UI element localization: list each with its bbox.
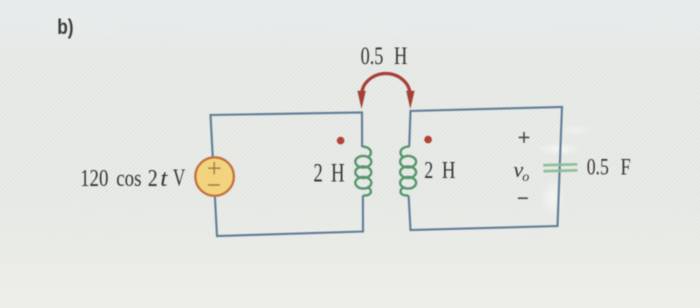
inductor L1 coil (355, 147, 371, 196)
inductor L1 value 2 H (314, 159, 345, 188)
source value label 120 cos 2t V (80, 165, 186, 192)
coupling arrowhead right (406, 91, 414, 109)
output voltage minus sign (518, 197, 528, 199)
coupling arrowhead left (357, 91, 365, 109)
svg-text:b): b) (57, 16, 73, 39)
svg-text:2: 2 (314, 159, 323, 188)
voltage source plus sign (208, 162, 221, 174)
capacitor value 0.5 F (587, 155, 631, 180)
inductor L1 dot marker (337, 137, 345, 145)
svg-text:t: t (160, 166, 169, 192)
svg-text:2: 2 (148, 166, 158, 192)
voltage source VS circle (195, 157, 234, 196)
svg-text:cos: cos (116, 166, 141, 192)
svg-text:2: 2 (424, 158, 433, 184)
svg-text:F: F (621, 155, 631, 180)
svg-text:H: H (394, 43, 407, 70)
inductor L2 coil (400, 147, 416, 196)
svg-text:0.5: 0.5 (361, 43, 384, 70)
mutual coupling arc arrow (362, 74, 411, 96)
voltage source minus sign (208, 184, 220, 186)
svg-text:H: H (331, 159, 345, 188)
output voltage plus sign (519, 132, 530, 143)
inductor L2 dot marker (424, 136, 432, 144)
svg-text:0.5: 0.5 (587, 155, 609, 180)
svg-text:120: 120 (80, 166, 108, 192)
capacitor C1 plates (543, 164, 577, 171)
svg-text:o: o (522, 170, 529, 185)
svg-text:H: H (442, 158, 456, 184)
wire: left loop (211, 113, 364, 237)
svg-text:V: V (173, 165, 186, 191)
wire: right loop (409, 107, 562, 230)
mutual inductance label 0.5 H (361, 43, 408, 70)
inductor L2 value 2 H (424, 158, 455, 184)
